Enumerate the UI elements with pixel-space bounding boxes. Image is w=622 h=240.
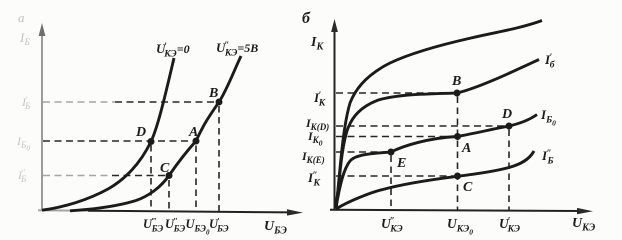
y-axis arrowhead left — [39, 23, 46, 36]
x-axis arrowhead left — [287, 209, 303, 215]
dashed level I''_K to C — [336, 175, 455, 177]
dashed level I_B0 (A,D level) — [43, 140, 194, 142]
svg-text:E: E — [396, 156, 406, 171]
faint y label I''_B — [17, 167, 27, 184]
dashed level I_K(E) to E — [336, 151, 389, 153]
dashed level I_K(D) to D — [336, 125, 507, 127]
point B — [216, 99, 223, 106]
svg-text:A: A — [461, 141, 471, 156]
point C — [166, 172, 173, 179]
input curve for U''_KE=5V (right curve through C,A,B) — [70, 56, 241, 211]
dashed vertical at U'_KE below D — [508, 130, 510, 211]
svg-text:C: C — [160, 161, 170, 176]
output curve I'_b through B — [336, 60, 539, 209]
point B right — [454, 90, 461, 97]
x-axis U_KE right — [330, 210, 581, 211]
faint y label I_B0 — [16, 134, 30, 153]
point D right — [506, 123, 513, 130]
svg-text:D: D — [135, 125, 146, 140]
dashed vertical at U_BE0 below A — [195, 146, 197, 213]
dashed vertical at U''_BE below C — [168, 180, 170, 212]
output curve I_b0 through E,A,D — [336, 115, 537, 209]
x-axis U_BE left — [38, 209, 88, 211]
svg-text:A: A — [188, 125, 198, 140]
dashed vertical at U'_BE below B — [218, 106, 220, 212]
point D — [148, 138, 155, 145]
point A right — [454, 133, 461, 140]
input curve for U'_KE=0 (left curve through D) — [42, 58, 174, 210]
y-axis I_K right — [334, 28, 336, 210]
svg-text:б: б — [302, 10, 311, 27]
axis variable label I_B (faint) — [19, 30, 30, 48]
point C right — [454, 173, 461, 180]
output curve I''_b through C — [336, 151, 534, 209]
svg-text:B: B — [451, 74, 461, 89]
svg-text:а: а — [18, 10, 25, 25]
point E right — [388, 149, 395, 156]
faint y label I'_B — [21, 94, 31, 111]
dashed level I''_B (C level) — [43, 175, 112, 177]
panel label a (faint) — [18, 10, 25, 25]
x-axis arrowhead right — [577, 208, 593, 214]
dashed level I'_B (B level) — [43, 101, 115, 103]
output curve top (unlabeled) — [336, 21, 542, 209]
point A — [193, 138, 200, 145]
dashed level I'_K to B — [336, 92, 455, 94]
svg-text:B: B — [208, 86, 218, 101]
y-axis I_B left — [41, 32, 43, 211]
y-axis arrowhead right — [331, 19, 338, 32]
svg-text:C: C — [463, 180, 473, 195]
dashed vertical at U''_KE below E — [390, 156, 392, 211]
dashed vertical at U_KE0 through B,A,C — [457, 97, 459, 211]
dashed vertical at U'''_BE below D — [150, 145, 152, 212]
dashed level I_K0 to A — [336, 136, 455, 138]
svg-text:D: D — [501, 107, 512, 122]
